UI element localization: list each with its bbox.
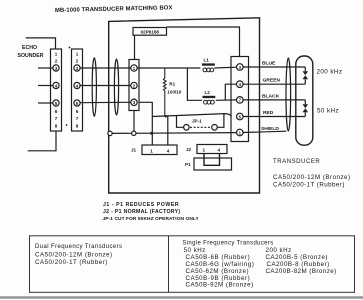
svg-text:Dual Frequency Transducers: Dual Frequency Transducers (35, 244, 122, 250)
svg-text:1: 1 (133, 66, 136, 71)
svg-text:5: 5 (55, 101, 58, 106)
grommet circle mid (132, 131, 136, 135)
junction row wire to shield terminal (110, 132, 236, 135)
svg-text:4: 4 (55, 83, 58, 88)
connector J1 (142, 145, 177, 155)
svg-text:L1: L1 (204, 58, 210, 63)
50 kHz element (304, 100, 306, 104)
svg-text:02P6168: 02P6168 (141, 30, 160, 35)
200 kHz element (304, 67, 306, 71)
wire L1 to terminal 3(BLUE) (214, 66, 236, 69)
svg-text:2: 2 (55, 59, 58, 64)
svg-text:4: 4 (218, 148, 221, 153)
svg-text:50 kHz: 50 kHz (317, 108, 339, 115)
connector J2 (197, 145, 227, 154)
wire row2 strip B to internal strip (80, 85, 131, 87)
terminal 4 GREEN (237, 81, 244, 88)
svg-text:RED: RED (263, 110, 274, 116)
svg-text:3: 3 (55, 66, 58, 71)
stub wire to A4 (38, 85, 53, 87)
svg-text:4: 4 (76, 83, 79, 88)
terminal 5 RED (237, 113, 244, 120)
svg-text:7: 7 (239, 98, 242, 103)
terminal 1 SHIELD (237, 129, 244, 136)
terminal strip TB-B (72, 49, 83, 131)
svg-text:BLACK: BLACK (262, 93, 280, 99)
terminal A3 (53, 65, 59, 71)
svg-text:200 kHz: 200 kHz (266, 247, 292, 254)
pcb label 02P6168 (133, 28, 167, 36)
svg-text:SOUNDER: SOUNDER (18, 53, 44, 59)
wire row3 to J1 pin1 (139, 102, 152, 145)
wire RED (243, 116, 305, 118)
wire row3 strip B to internal strip (80, 101, 131, 103)
svg-text:7: 7 (76, 116, 79, 121)
wire row1 terminal1 to L1 (137, 67, 200, 69)
svg-text:5: 5 (239, 114, 242, 119)
svg-text:1: 1 (55, 52, 58, 57)
wire SHIELD (243, 131, 286, 132)
svg-text:103/10: 103/10 (167, 90, 181, 95)
cable sheath oval inner (114, 59, 118, 115)
svg-text:MB-1000 TRANSDUCER MATCHING B: MB-1000 TRANSDUCER MATCHING BOX (55, 5, 173, 14)
svg-text:200 kHz: 200 kHz (317, 69, 343, 76)
grommet circle left (108, 131, 112, 135)
wire jog BLACK to GREEN (225, 84, 236, 100)
connector P1 (194, 158, 232, 170)
svg-text:1: 1 (150, 148, 153, 153)
terminal A4 (53, 82, 59, 88)
svg-text:GREEN: GREEN (263, 78, 281, 84)
wire J1 pin4 drop (167, 116, 169, 145)
svg-text:3: 3 (133, 100, 136, 105)
svg-text:6: 6 (55, 109, 58, 114)
pcb terminal strip left (1-2-3) (129, 60, 139, 111)
jumper JP-1 (177, 115, 184, 127)
wire echo sounder to strip A pin1 (26, 38, 56, 49)
svg-text:50 kHz: 50 kHz (184, 247, 206, 254)
svg-text:3: 3 (76, 66, 79, 71)
svg-text:L2: L2 (205, 90, 211, 95)
terminal A5 (53, 100, 59, 106)
terminal B4 (74, 82, 80, 88)
svg-text:8: 8 (55, 124, 58, 129)
wire GREEN (243, 83, 305, 85)
svg-text:CA50/200-1T (Rubber): CA50/200-1T (Rubber) (273, 181, 345, 188)
svg-text:J2: J2 (186, 147, 192, 152)
svg-text:2: 2 (76, 59, 79, 64)
svg-text:SHIELD: SHIELD (261, 126, 279, 132)
svg-text:2: 2 (133, 83, 136, 88)
svg-text:CA50/200-12M (Bronze): CA50/200-12M (Bronze) (273, 174, 351, 181)
resistor R1 (163, 68, 166, 116)
svg-text:R1: R1 (169, 81, 175, 86)
svg-text:CA50/200-12M (Bronze): CA50/200-12M (Bronze) (35, 251, 113, 258)
junction arrow on R1 row (165, 115, 169, 118)
svg-text:1: 1 (76, 52, 79, 57)
svg-text:JP-1 CUT FOR 50KHZ OPERATION: JP-1 CUT FOR 50KHZ OPERATION ONLY (103, 216, 200, 222)
transducer body capsule (296, 56, 313, 145)
svg-text:CA200B-82M (Bronze): CA200B-82M (Bronze) (266, 268, 337, 275)
stub wire to A5 (38, 102, 53, 104)
terminal 1 (131, 65, 137, 71)
leader wire from 02P6168 to right terminal strip (167, 27, 240, 57)
table divider (168, 236, 170, 292)
svg-text:5: 5 (76, 101, 79, 106)
svg-text:J1 - P1 REDUCES POWER: J1 - P1 REDUCES POWER (103, 202, 179, 208)
svg-text:3: 3 (239, 65, 242, 70)
wire row1 strip B to internal strip (80, 67, 131, 69)
svg-text:BLUE: BLUE (262, 61, 276, 67)
svg-text:Single Frequency Transducers: Single Frequency Transducers (182, 241, 273, 247)
footnote dot lower (66, 124, 68, 126)
wire terminal3 down to junction row (133, 111, 135, 134)
svg-text:8: 8 (76, 124, 79, 129)
svg-text:4: 4 (239, 82, 242, 87)
cable sheath oval outer (92, 58, 96, 117)
svg-text:JP-1: JP-1 (192, 119, 202, 124)
svg-text:1: 1 (239, 130, 242, 135)
plug J2 to P1 (204, 154, 220, 166)
wire branch to L2 (187, 68, 202, 100)
svg-text:4: 4 (167, 148, 170, 153)
wire L2 to terminal 7(BLACK) (216, 99, 237, 101)
table frame (30, 236, 355, 292)
footnote dot upper (69, 47, 71, 49)
svg-text:CA50/200-1T (Rubber): CA50/200-1T (Rubber) (35, 259, 108, 266)
junction arrow on row (151, 132, 155, 135)
wire R1 bottom row to RED terminal (152, 114, 231, 117)
terminal 7 BLACK (237, 97, 244, 104)
terminal 3 (131, 99, 137, 105)
terminal 2 (131, 82, 137, 88)
svg-text:ECHO: ECHO (22, 45, 37, 51)
wire BLACK (243, 99, 305, 101)
terminal 3 BLUE (237, 64, 244, 71)
svg-text:1: 1 (203, 148, 206, 153)
svg-text:J1: J1 (131, 147, 137, 152)
scan edge bar (0, 296, 363, 299)
pcb terminal strip right (231, 57, 249, 142)
stub wire to A3 (38, 67, 53, 69)
svg-text:CA50B-92M (Bronze): CA50B-92M (Bronze) (186, 282, 254, 289)
terminal B5 (74, 100, 80, 106)
terminal strip TB-A (echo sounder side) (51, 49, 62, 131)
svg-text:TRANSDUCER: TRANSDUCER (273, 158, 320, 165)
svg-text:P1: P1 (185, 162, 191, 167)
terminal B3 (74, 65, 80, 71)
matching box enclosure (109, 18, 260, 193)
leader wire from 02P6168 to left terminal strip (134, 35, 136, 59)
transducer cable sheath oval (286, 58, 291, 131)
wire strip A bottom return (28, 131, 56, 151)
wire BLUE (243, 66, 305, 68)
svg-text:J2 - P1 NORMAL (FACTORY): J2 - P1 NORMAL (FACTORY) (103, 209, 180, 215)
svg-text:7: 7 (55, 116, 58, 121)
svg-text:6: 6 (76, 109, 79, 114)
